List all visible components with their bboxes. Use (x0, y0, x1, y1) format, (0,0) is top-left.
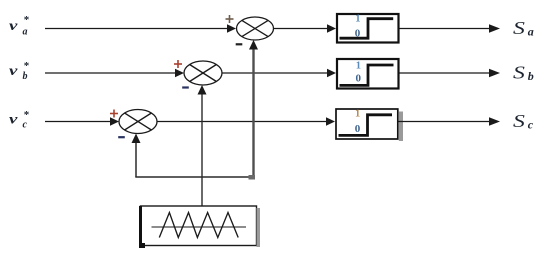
svg-text:a: a (528, 25, 534, 39)
svg-text:S: S (513, 62, 525, 82)
node S_c label (513, 111, 534, 132)
carrier generator block (triangular wave) (139, 206, 260, 248)
svg-text:b: b (23, 71, 28, 82)
node v_a* label (9, 14, 30, 38)
node S_b label (513, 62, 534, 83)
carrier axis line (152, 226, 247, 228)
wire carrier distribution bus (135, 175, 255, 180)
svg-text:v: v (9, 17, 18, 33)
node v_b* label (9, 60, 30, 82)
wire comparator c to output (399, 117, 501, 125)
minus sign summer a (236, 43, 243, 45)
plus sign summer b (174, 60, 182, 68)
svg-text:a: a (23, 27, 28, 38)
wire va to summer (45, 24, 236, 33)
node v_c* label (9, 109, 30, 131)
minus sign summer b (182, 86, 189, 88)
svg-text:v: v (9, 111, 18, 127)
svg-text:0: 0 (356, 73, 362, 85)
wire comparator a to output (400, 24, 501, 32)
comparator U2 (relay block) (337, 59, 399, 89)
wire comparator b to output (400, 69, 501, 77)
svg-text:c: c (23, 120, 28, 131)
wire carrier riser to summer c (132, 134, 141, 178)
wire summer b to comparator b (222, 69, 336, 78)
wire carrier riser to summer a (thick gray) (249, 40, 258, 177)
svg-text:1: 1 (356, 60, 361, 71)
comparator U3 (relay block) (336, 108, 403, 141)
summing junction row c (119, 110, 157, 134)
svg-text:v: v (9, 62, 18, 78)
wire carrier riser to summer b (198, 85, 207, 206)
svg-text:b: b (528, 69, 534, 83)
summing junction row b (184, 61, 222, 85)
carrier triangle waveform (159, 213, 238, 238)
svg-text:1: 1 (355, 108, 360, 119)
comparator U1 (relay block) (337, 13, 399, 42)
minus sign summer c (118, 136, 125, 138)
svg-text:*: * (24, 14, 30, 26)
svg-text:S: S (513, 111, 525, 131)
wire summer a to comparator a (274, 24, 337, 33)
wire vc to summer (45, 117, 119, 126)
node S_a label (513, 18, 534, 39)
svg-text:1: 1 (355, 13, 360, 24)
wire vb to summer (45, 69, 184, 78)
plus sign summer c (110, 110, 118, 118)
wire summer c to comparator c (157, 117, 335, 126)
svg-text:S: S (513, 18, 525, 38)
svg-text:c: c (528, 118, 534, 132)
summing junction row a (237, 17, 274, 40)
svg-text:0: 0 (355, 123, 361, 135)
plus sign summer a (226, 15, 234, 23)
